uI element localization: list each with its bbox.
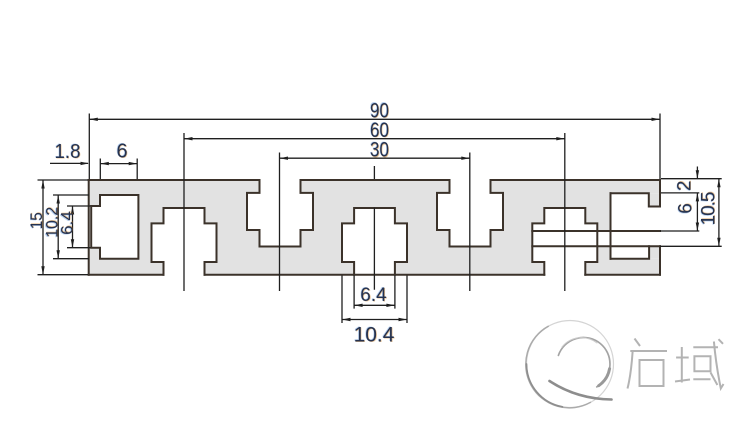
svg-text:30: 30 [370,139,389,162]
left end closed T-slot cavity (void) [90,195,138,259]
top face segments [89,179,660,181]
bottom face segments [89,274,660,276]
top T-slot C void (center x=470) [437,179,503,247]
svg-text:10.4: 10.4 [354,324,395,347]
slit top line [532,230,660,232]
right extension top face [661,178,722,180]
svg-text:6: 6 [676,203,697,214]
profile body fill [89,180,661,275]
left face [88,180,90,275]
dim 10.2 line [57,195,59,259]
dim 2 stub [696,167,698,179]
logo character yu [675,339,724,388]
6.4 left arrows [71,206,74,215]
dim 90 extensions [89,114,660,180]
dim 10.4 line [342,319,407,321]
1.8 arrow [81,162,90,165]
30 arrows [280,157,289,160]
top T-slot C outline [437,180,503,247]
logo inner Q arc [558,337,610,386]
dim 6.4 left line [72,206,74,248]
bottom T-slot D outline [532,208,597,275]
dimension thin lines [38,114,722,324]
dim 1.8 leader [50,162,88,164]
dim 60 line [184,138,565,140]
logo character qi [628,339,668,389]
right side chamber void [611,193,662,259]
right slit extension tails [660,231,722,246]
dim 30 extensions [280,153,470,292]
dim 6.4 bottom line [354,304,395,306]
bottom T-slot A outline [152,208,217,275]
10.4 arrows [342,318,351,321]
center channel centerline [373,166,375,290]
10.5 arrows [717,179,720,188]
dim 6 top line [100,163,137,165]
dim 10.5 line [718,179,720,247]
dim 60 extensions [184,133,565,291]
6 right arrows [696,193,699,202]
left cavity outline [91,195,138,259]
logo inner highlight arc [562,338,597,347]
right chamber top edge and hook [611,193,661,206]
profile outline strokes [89,180,660,275]
dim 10.4 extensions [342,276,407,324]
center bottom channel void (center x=374.5) [342,208,407,275]
10.2 arrows [57,195,60,204]
dim 6.4 left extensions [67,206,91,248]
logo inner Q thick end [599,369,610,386]
dim 10.2 extensions [53,195,89,259]
6 top arrows [100,162,109,165]
bottom T-slot D void (center x=565) [532,208,597,276]
60 arrows [184,137,193,140]
dim 6 top extensions [100,159,137,180]
logo big circle dark arc [527,364,563,407]
svg-text:6.4: 6.4 [360,285,387,306]
6.4 bottom arrows [354,304,363,307]
right chamber left wall [610,193,612,259]
right top hook material [649,193,660,206]
right extension 2-level [661,192,699,194]
center channel outline [342,208,407,275]
right chamber bottom edge and hook [611,246,650,258]
dim 90 line [89,118,660,120]
svg-text:6: 6 [116,141,127,163]
right slit void [532,231,661,246]
slit bottom line [532,245,660,247]
15 arrows [41,180,44,189]
logo watermark [526,321,614,408]
svg-text:1.8: 1.8 [55,141,81,163]
svg-text:6.4: 6.4 [57,211,76,235]
right face segments [659,180,661,275]
logo Q tail [550,381,612,400]
logo big circle light ring [527,321,614,408]
dimension texts [27,99,720,346]
arrowheads [41,118,720,322]
dim 6 right line [696,193,698,231]
90 arrows [89,118,98,121]
svg-text:2: 2 [675,181,696,192]
2 arrow [696,170,699,179]
top T-slot B outline [247,180,313,247]
logo big circle medium arc [526,326,591,408]
dim 30 line [280,157,470,159]
top T-slot B void (center x=280) [247,179,313,247]
dim 15 extensions [38,180,89,275]
right bottom hook material [649,246,660,258]
dim 6.4 bottom extensions [354,276,395,309]
bottom T-slot A void (center x=184) [152,208,217,276]
svg-text:10.5: 10.5 [699,192,720,225]
dim 15 line [42,180,44,275]
